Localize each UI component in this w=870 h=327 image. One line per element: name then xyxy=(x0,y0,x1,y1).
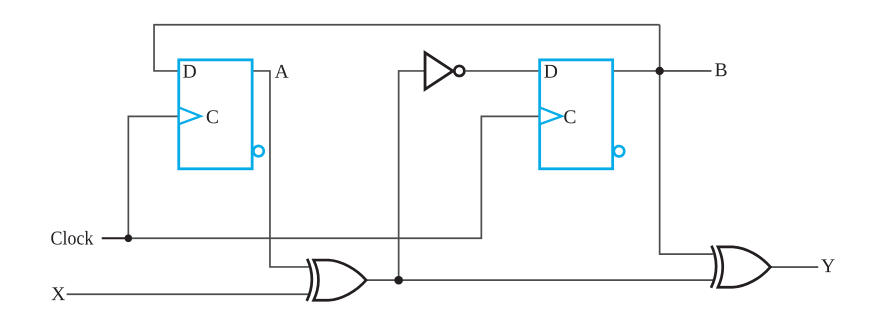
inverter U3 triangle xyxy=(425,53,453,90)
wire XOR1 output to XOR2 bottom input xyxy=(366,279,714,281)
D flip-flop U2 body xyxy=(540,60,613,169)
node label A xyxy=(275,65,289,78)
D flip-flop U2 clock edge triangle xyxy=(540,107,562,124)
wire clock stub from label to junction xyxy=(102,237,129,239)
input label X xyxy=(52,287,65,300)
D flip-flop U1 clock edge triangle xyxy=(179,107,201,124)
junction dot clock node xyxy=(125,234,133,242)
D flip-flop U1 body xyxy=(179,60,252,169)
wire node B stub to label B xyxy=(660,70,712,72)
wire inverter output to D input of U2 xyxy=(466,70,540,72)
wire XOR1 output junction up to inverter input xyxy=(399,71,425,280)
XOR gate G1 input arc xyxy=(307,259,312,301)
D flip-flop U2 pin label C xyxy=(564,110,575,123)
D flip-flop U1 inverted output bubble xyxy=(253,146,263,156)
output label Y xyxy=(821,259,834,272)
input label Clock xyxy=(51,231,93,245)
wire clock branch up to C input of U1 xyxy=(128,116,178,238)
junction dot XOR1 output node xyxy=(394,276,403,285)
wire node A from U1 Q output down to XOR1 top input xyxy=(252,71,309,267)
D flip-flop U2 inverted output bubble xyxy=(614,146,624,156)
wire node B vertical down to XOR2 top input xyxy=(660,25,713,254)
wire clock line to C input of U2 xyxy=(128,116,539,238)
D flip-flop U1 pin label C xyxy=(207,110,218,123)
wire input X to XOR1 bottom input xyxy=(67,293,309,295)
D flip-flop U2 pin label D xyxy=(544,65,557,78)
XOR gate G2 input arc xyxy=(711,246,716,288)
wire feedback loop from node B to D input of U1 xyxy=(154,25,660,71)
D flip-flop U1 pin label D xyxy=(183,65,196,78)
node label B xyxy=(715,63,726,76)
XOR gate G1 body xyxy=(314,260,367,300)
XOR gate G2 body xyxy=(718,247,771,287)
junction dot node B xyxy=(656,67,664,75)
inverter U3 bubble xyxy=(454,66,464,76)
wire XOR2 output to label Y xyxy=(770,266,818,268)
wire FF U2 Q output to node B junction xyxy=(613,70,660,72)
